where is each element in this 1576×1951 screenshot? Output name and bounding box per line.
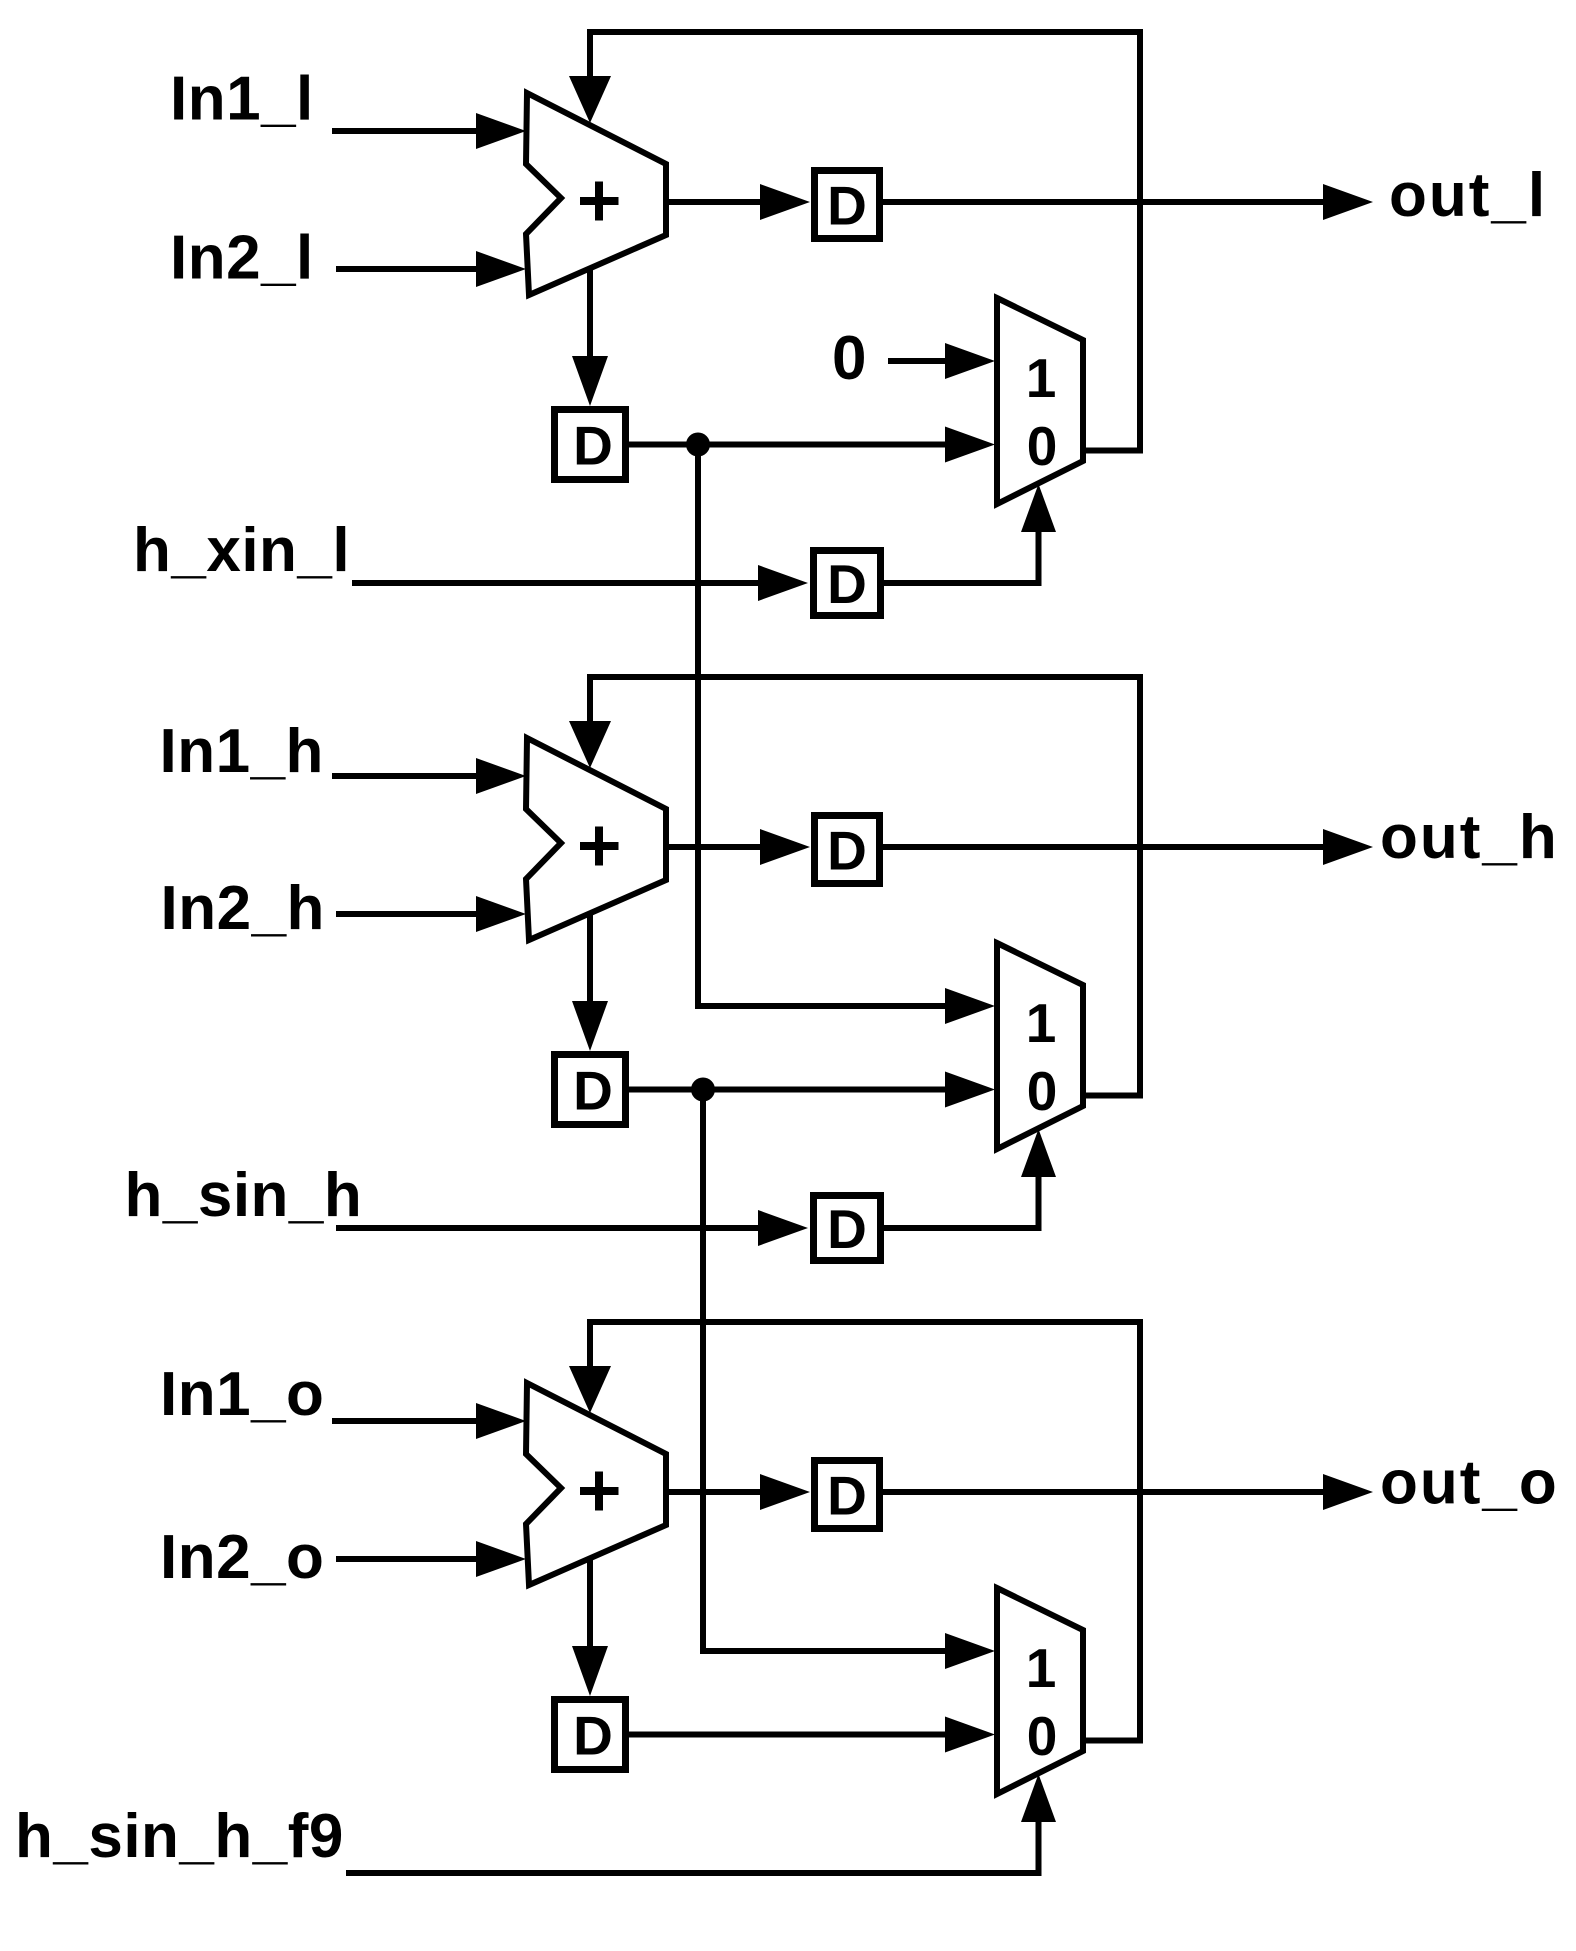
wire In2_o into adder U3 (336, 1541, 526, 1577)
svg-text:out_h: out_h (1380, 803, 1559, 872)
svg-text:1: 1 (1026, 1637, 1057, 1699)
svg-text:out_o: out_o (1380, 1449, 1559, 1518)
svg-text:0: 0 (832, 324, 867, 393)
svg-text:D: D (573, 415, 613, 477)
adder U3 (+) (526, 1383, 666, 1585)
wire adder U3 bottom output to register D3b (572, 1557, 608, 1696)
adder U2 (+) (526, 738, 666, 940)
svg-text:D: D (827, 553, 867, 615)
wire register D1b to mux M1 input 0 (629, 427, 995, 463)
svg-text:In2_h: In2_h (161, 874, 325, 943)
wire adder U1 bottom output to register D1b (572, 267, 608, 406)
register D2a (815, 816, 880, 884)
mux M3 (2:1) (997, 1588, 1083, 1794)
wire h_xin_l into register D1c (352, 565, 808, 601)
svg-text:In1_l: In1_l (170, 65, 314, 134)
svg-text:In2_l: In2_l (170, 224, 314, 293)
wire adder U1 output to register D1a (666, 184, 810, 220)
register D3b (555, 1700, 626, 1770)
wire In2_l into adder U1 (336, 251, 526, 287)
svg-text:D: D (827, 1198, 867, 1260)
wire feedback: mux M1 output to adder U1 top (569, 32, 1140, 451)
wire In1_h into adder U2 (332, 758, 526, 794)
wire In2_h into adder U2 (336, 896, 526, 932)
wire register D2a to out_h (883, 829, 1373, 865)
wire register D1c to mux M1 select (884, 484, 1056, 583)
wire constant 0 to mux M1 input 1 (888, 343, 995, 379)
wire h_sin_h into register D2c (336, 1210, 808, 1246)
svg-text:D: D (827, 1465, 867, 1527)
wire register D2c to mux M2 select (884, 1129, 1056, 1228)
svg-text:In2_o: In2_o (160, 1523, 324, 1592)
svg-text:h_sin_h_f9: h_sin_h_f9 (15, 1802, 344, 1871)
wire In1_o into adder U3 (332, 1403, 526, 1439)
svg-text:1: 1 (1026, 992, 1057, 1054)
adder U1 (+) (526, 93, 666, 295)
wire junction D1b to mux M2 input 1 (698, 445, 995, 1025)
svg-text:out_l: out_l (1389, 161, 1547, 230)
svg-text:0: 0 (1027, 1060, 1058, 1122)
wire feedback: mux M3 output to adder U3 top (569, 1322, 1140, 1741)
wire register D3a to out_o (883, 1474, 1373, 1510)
wire In1_l into adder U1 (332, 113, 526, 149)
register D1a (815, 171, 880, 239)
svg-text:0: 0 (1027, 1705, 1058, 1767)
wire adder U2 bottom output to register D2b (572, 912, 608, 1051)
wire junction D2b to mux M3 input 1 (703, 1090, 995, 1670)
wire register D3b to mux M3 input 0 (629, 1717, 995, 1753)
svg-text:D: D (827, 175, 867, 237)
wire feedback: mux M2 output to adder U2 top (569, 677, 1140, 1096)
svg-text:0: 0 (1027, 415, 1058, 477)
wire h_sin_h_f9 to mux M3 select (346, 1774, 1056, 1873)
svg-text:D: D (573, 1060, 613, 1122)
wire register D2b to mux M2 input 0 (629, 1072, 995, 1108)
svg-text:D: D (573, 1705, 613, 1767)
wire register D1a to out_l (883, 184, 1373, 220)
register D2c (814, 1196, 881, 1261)
svg-text:h_sin_h: h_sin_h (125, 1161, 363, 1230)
svg-text:In1_o: In1_o (160, 1360, 324, 1429)
svg-text:h_xin_l: h_xin_l (133, 516, 350, 585)
mux M2 (2:1) (997, 943, 1083, 1149)
svg-text:D: D (827, 820, 867, 882)
register D3a (815, 1461, 880, 1529)
svg-text:In1_h: In1_h (160, 717, 324, 786)
mux M1 (2:1) (997, 298, 1083, 504)
wire adder U3 output to register D3a (666, 1474, 810, 1510)
register D2b (555, 1055, 626, 1125)
junction node at register D2b output (691, 1078, 715, 1102)
junction node at register D1b output (686, 433, 710, 457)
register D1b (555, 410, 626, 480)
register D1c (814, 551, 881, 616)
svg-text:1: 1 (1026, 347, 1057, 409)
wire adder U2 output to register D2a (666, 829, 810, 865)
